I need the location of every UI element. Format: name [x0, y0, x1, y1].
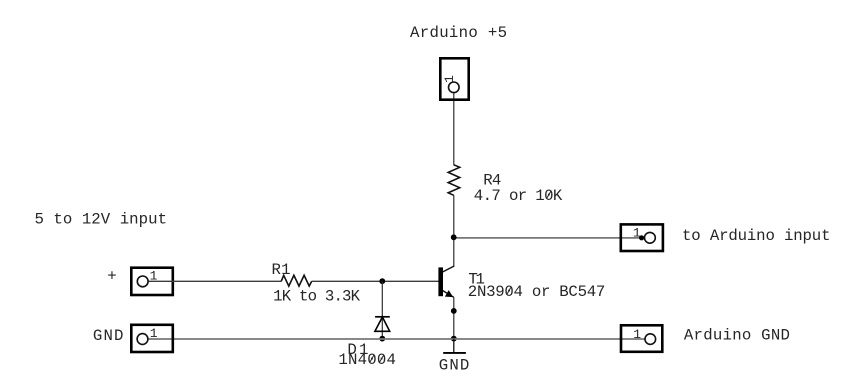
svg-text:1: 1 — [633, 327, 641, 342]
diode D1 — [375, 317, 390, 332]
junction emitter on GND rail — [451, 336, 457, 342]
svg-text:5 to 12V input: 5 to 12V input — [35, 211, 168, 229]
junction emitter node — [451, 308, 457, 314]
svg-text:1N4004: 1N4004 — [338, 351, 396, 369]
resistor R4 — [448, 165, 460, 196]
svg-text:4.7 or 10K: 4.7 or 10K — [474, 187, 563, 205]
connector J4 Arduino +5 — [440, 58, 468, 99]
emitter arrowhead — [445, 290, 453, 297]
wire R4 to collector — [453, 195, 455, 266]
slashed zero marks — [507, 287, 511, 294]
svg-text:+: + — [107, 267, 116, 285]
wire diode branch — [381, 281, 383, 339]
svg-text:GND: GND — [439, 357, 470, 375]
connector J5 Arduino GND — [621, 325, 662, 352]
connector J1 + input — [131, 268, 281, 295]
base bar — [438, 267, 443, 296]
emitter lead — [443, 291, 454, 298]
wire emitter to GND rail — [453, 297, 455, 339]
svg-text:Arduino +5: Arduino +5 — [410, 24, 507, 42]
junction base node — [379, 278, 385, 284]
svg-text:2N3904 or BC547: 2N3904 or BC547 — [468, 283, 606, 301]
collector lead — [443, 266, 454, 272]
svg-text:1: 1 — [633, 226, 641, 241]
ground symbol — [443, 339, 466, 353]
svg-text:1: 1 — [150, 269, 158, 284]
svg-text:to Arduino input: to Arduino input — [682, 227, 831, 245]
svg-text:Arduino GND: Arduino GND — [684, 327, 790, 345]
svg-text:1: 1 — [150, 326, 158, 341]
resistor R1 — [281, 275, 312, 286]
wire R1 to base — [312, 280, 439, 282]
svg-text:GND: GND — [93, 327, 124, 345]
wire GND rail — [148, 338, 645, 340]
connector J2 GND input — [131, 325, 173, 352]
svg-text:1K to 3.3K: 1K to 3.3K — [273, 288, 361, 306]
junction diode anode on GND rail — [379, 336, 385, 342]
svg-text:1: 1 — [442, 75, 457, 83]
junction collector node — [451, 234, 457, 240]
connector J3 to Arduino input — [621, 224, 663, 251]
transistor T1 — [438, 266, 454, 297]
wire + to R1 — [148, 280, 282, 282]
svg-text:R1: R1 — [272, 261, 291, 279]
wire node to Arduino input — [454, 237, 645, 239]
junction wire end dot — [639, 235, 644, 240]
wire top connector to R4 — [453, 93, 455, 166]
